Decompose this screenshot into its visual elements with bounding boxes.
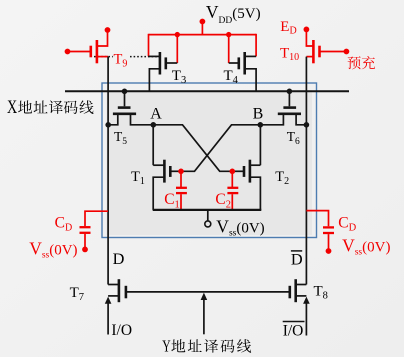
node T10 drain terminal dot [304, 27, 310, 33]
node VDD terminal dot [200, 19, 206, 25]
node B dot [258, 122, 264, 128]
svg-text:Vss(0V): Vss(0V) [216, 216, 264, 238]
junction dot T1 gate storage node [178, 169, 184, 175]
node CD right Vss terminal dot [326, 248, 332, 254]
wire VDD drop to T4 drain [255, 34, 257, 57]
wire Y select line T7 gate to T8 gate [126, 291, 290, 293]
svg-text:I/O: I/O [283, 322, 304, 339]
junction dot VDD rail left [175, 32, 180, 37]
capacitor C2 [227, 171, 238, 210]
label precharge [348, 56, 375, 69]
junction dot T5 gate on X line [122, 89, 128, 95]
transistor T2 [232, 160, 260, 210]
junction dot left bit line at T5 [105, 122, 111, 128]
transistor T8 [290, 279, 307, 302]
svg-text:Y: Y [162, 336, 170, 355]
wire T8 source to IObar with arrow [303, 297, 310, 336]
transistor T6 [260, 91, 306, 125]
node A dot [151, 122, 157, 128]
svg-text:I/O: I/O [111, 322, 132, 339]
svg-text:Vss(0V): Vss(0V) [29, 238, 77, 260]
wire bottom source rail [153, 209, 262, 211]
junction dot VDD rail right [226, 32, 231, 37]
label IObar [283, 322, 305, 340]
wire VDD drop to T3 drain [148, 34, 150, 57]
wire cross coupling A to T2 gate [153, 125, 232, 172]
wire VDD rail [149, 34, 257, 36]
memory cell gray box [107, 90, 313, 235]
transistor T4 [229, 52, 256, 91]
transistor T1 [153, 160, 181, 210]
node CD left Vss terminal dot [82, 247, 88, 253]
svg-text:X: X [7, 98, 18, 118]
cell selection blue box [102, 83, 317, 238]
svg-text:A: A [150, 106, 162, 123]
junction dot T6 gate on X line [287, 89, 293, 95]
junction dot right bit line at T6 [304, 122, 310, 128]
transistor T3 [149, 52, 178, 91]
node T9 gate terminal dot [65, 49, 71, 55]
wire X address decode line [65, 90, 349, 92]
wire right bit line Dbar [305, 57, 307, 285]
label Dbar [291, 249, 303, 268]
dotted gate line T9 to T3 [94, 56, 160, 58]
capacitor CD left [80, 211, 109, 249]
wire T7 source to IO with arrow [105, 297, 112, 335]
wire Vss stub [207, 210, 209, 221]
wire VDD drop to T4 gate [228, 35, 230, 63]
node Vss open terminal [205, 221, 211, 227]
transistor T7 [108, 279, 126, 302]
transistor T5 [108, 91, 153, 125]
transistor T10 [306, 29, 346, 63]
svg-text:D: D [291, 249, 303, 268]
label T9 [113, 51, 130, 69]
wire node A vertical to T1 drain [152, 125, 154, 165]
wire cross coupling B to T1 gate [181, 125, 260, 172]
node T10 gate terminal dot (precharge) [344, 49, 350, 55]
capacitor CD right [306, 211, 334, 251]
svg-text:D: D [113, 249, 125, 268]
wire left bit line D [107, 57, 109, 285]
wire node B vertical to T2 drain [259, 125, 261, 165]
junction dot T2 gate storage node [230, 169, 236, 175]
wire VDD drop to T3 gate [176, 35, 178, 63]
node T9 drain terminal dot [105, 27, 111, 33]
svg-text:Vss(0V): Vss(0V) [342, 235, 390, 257]
wire VDD vertical [201, 22, 203, 35]
capacitor C1 [176, 171, 187, 210]
wire Y decode arrow [201, 293, 208, 335]
svg-text:B: B [253, 106, 264, 123]
transistor T9 [68, 30, 109, 63]
